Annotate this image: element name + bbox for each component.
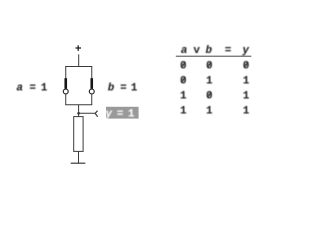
svg-text:1: 1 xyxy=(180,106,187,118)
svg-text:a: a xyxy=(16,83,23,95)
svg-text:0: 0 xyxy=(243,61,250,73)
svg-text:b: b xyxy=(108,83,115,95)
svg-text:0: 0 xyxy=(206,61,213,73)
svg-text:0: 0 xyxy=(180,61,187,73)
svg-text:1: 1 xyxy=(41,83,48,95)
svg-text:b: b xyxy=(205,45,212,57)
svg-text:1: 1 xyxy=(180,91,187,103)
svg-text:y: y xyxy=(104,108,112,120)
svg-text:1: 1 xyxy=(243,106,250,118)
svg-text:1: 1 xyxy=(128,108,135,120)
svg-text:0: 0 xyxy=(180,76,187,88)
svg-text:1: 1 xyxy=(206,106,213,118)
svg-text:=: = xyxy=(117,108,124,120)
svg-text:1: 1 xyxy=(206,76,213,88)
svg-text:0: 0 xyxy=(206,91,213,103)
svg-text:=: = xyxy=(225,45,232,57)
svg-text:1: 1 xyxy=(243,76,250,88)
svg-text:=: = xyxy=(29,83,36,95)
svg-text:y: y xyxy=(241,45,249,57)
svg-text:v: v xyxy=(193,45,200,57)
svg-text:a: a xyxy=(181,45,188,57)
svg-text:=: = xyxy=(120,83,127,95)
svg-text:1: 1 xyxy=(131,83,138,95)
svg-text:1: 1 xyxy=(243,91,250,103)
